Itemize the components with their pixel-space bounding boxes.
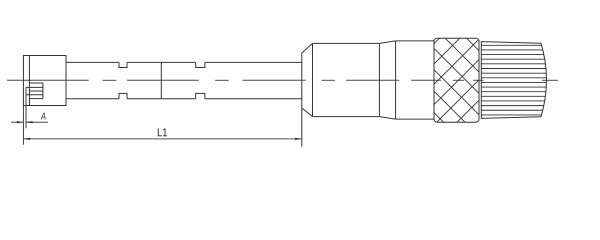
body top edge: [313, 42, 380, 44]
taper bottom: [379, 117, 395, 120]
shaft bottom edge: [66, 98, 302, 100]
body end face / L1 extension line: [301, 53, 303, 147]
knurl cross-hatch: [356, 38, 562, 122]
sleeve top edge: [396, 40, 434, 42]
dimension A right leader: [26, 121, 48, 123]
arrowhead A right: [26, 121, 33, 123]
taper top: [379, 41, 395, 44]
notch 1 top: [119, 62, 127, 67]
body bottom edge: [313, 116, 380, 118]
body front edge: [312, 43, 314, 116]
cone bottom: [302, 108, 313, 117]
sleeve front line: [395, 41, 397, 119]
arrowhead L1 right: [295, 138, 302, 140]
shaft top edge: [66, 61, 302, 63]
arrowhead L1 left: [23, 138, 30, 140]
dimension A extension line (head face): [22, 106, 24, 145]
body joint line: [378, 43, 380, 116]
sleeve bottom edge: [396, 118, 434, 120]
arrowhead A left: [17, 121, 24, 123]
cone top: [302, 43, 313, 53]
label L1: [158, 128, 167, 136]
measuring head body: [23, 56, 66, 106]
head inner face line: [28, 56, 30, 106]
notch 2 top: [196, 62, 205, 67]
dimension A extension line (pin face): [25, 87, 27, 128]
centerline: [7, 79, 558, 81]
label A: [41, 113, 46, 120]
shaft joint line: [160, 62, 162, 98]
dimension A left leader: [11, 121, 23, 123]
thimble outline: [481, 42, 546, 119]
thimble circumferential lines: [481, 45, 547, 115]
measuring pin (contact): [26, 83, 43, 99]
notch 2 bottom: [196, 93, 205, 98]
knurled ring outline: [434, 38, 479, 122]
dimension L1 line: [23, 138, 301, 140]
notch 1 bottom: [119, 93, 127, 98]
